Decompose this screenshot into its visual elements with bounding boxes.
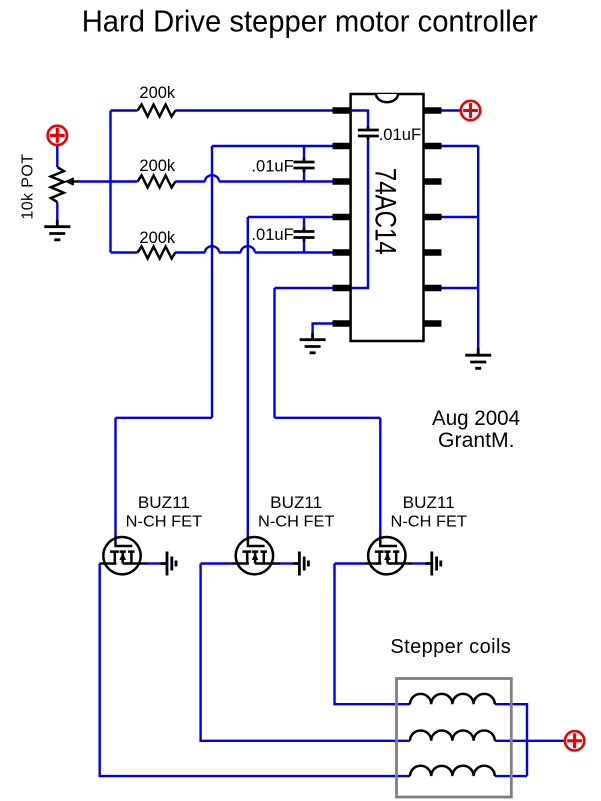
wire row3 left lead: [111, 251, 138, 253]
wire coil1 right lead: [495, 704, 527, 776]
IC U1 pin R4: [423, 214, 442, 221]
potentiometer wiper lead: [73, 180, 79, 182]
wire C1 bottom lead: [303, 171, 305, 182]
transistor Q1 BUZ11: [100, 536, 148, 575]
wire FET3 gate horizontal: [275, 417, 381, 419]
stepper coils box: [397, 679, 512, 798]
capacitor C2 .01uF: [294, 228, 315, 242]
wire C1 top lead: [303, 146, 305, 160]
wire FET3 gate vertical lower: [379, 418, 381, 536]
wire row1 R1 to pin L1: [175, 109, 368, 111]
wire row2 R2 to hop: [175, 180, 205, 182]
svg-text:N-CH FET: N-CH FET: [391, 514, 468, 531]
IC U1 pin R2: [423, 143, 442, 150]
wire pin L6 to corner: [275, 287, 333, 289]
wire pin L4 to corner: [248, 216, 333, 218]
wire pin L7 to ground: [313, 324, 333, 339]
svg-text:74AC14: 74AC14: [369, 168, 402, 255]
wire row1 left lead: [111, 109, 138, 111]
potentiometer wiper arrow: [64, 177, 74, 186]
ground pin L7: [300, 333, 326, 353]
IC U1 pin R1: [423, 107, 442, 114]
transistor Q2 BUZ11: [232, 536, 280, 575]
wire pin R2 to right bus: [442, 145, 479, 147]
resistor R2 200k: [138, 176, 176, 188]
IC U1 pin R6: [423, 285, 442, 292]
IC U1 pin L2: [333, 143, 352, 150]
wire FET2 drain to coil2: [201, 564, 410, 741]
hop row3 over FET1 gate net: [205, 246, 219, 252]
IC U1 pin R7: [423, 320, 442, 327]
wire FET3 drain left lead: [335, 562, 365, 564]
wire FET1 drain to coil3: [100, 564, 410, 777]
IC U1 74AC14 body: [351, 94, 424, 341]
hop row2 over FET1 gate net: [205, 175, 219, 181]
inductor coil1: [410, 694, 495, 704]
wire row2 hop to pin L3: [219, 180, 333, 182]
wire wiper to bus to R2 left: [78, 180, 138, 182]
transistor Q3 BUZ11: [364, 536, 412, 575]
inductor coil2: [410, 730, 495, 740]
inductor coil3: [410, 766, 495, 776]
svg-text:.01uF: .01uF: [379, 125, 421, 144]
wire FET2 drain left lead: [201, 562, 232, 564]
wire pin L2 to corner: [212, 145, 333, 147]
wire FET1 gate vertical lower: [114, 418, 116, 536]
wire pin R1 to +V: [442, 109, 461, 111]
wire row3 between hops: [219, 251, 241, 253]
wire FET3 drain to coil1: [335, 564, 411, 705]
svg-text:BUZ11: BUZ11: [138, 494, 190, 512]
wire row3 R3 to hop1: [175, 251, 205, 253]
svg-text:Stepper coils: Stepper coils: [390, 636, 511, 658]
supply +V IC pin R1: [461, 101, 480, 120]
svg-text:.01uF: .01uF: [251, 225, 293, 244]
svg-text:GrantM.: GrantM.: [438, 428, 515, 452]
svg-text:Aug 2004: Aug 2004: [432, 406, 520, 430]
ground Q2 source: [293, 552, 309, 576]
wire pin R4 to right bus: [442, 216, 479, 218]
svg-text:BUZ11: BUZ11: [403, 494, 455, 512]
wire pin R6 to right bus: [442, 287, 479, 289]
supply +V pot: [48, 126, 67, 145]
wire FET3 source gap: [412, 562, 425, 564]
IC U1 pin L7: [333, 320, 352, 327]
wire right bus vertical: [477, 146, 479, 354]
wire pot top lead: [56, 144, 58, 167]
wire row3 hop2 to pin L5: [255, 251, 333, 253]
IC U1 pin R3: [423, 178, 442, 185]
ground right bus: [465, 348, 491, 368]
wire FET1 source gap: [147, 562, 160, 564]
svg-text:200k: 200k: [139, 157, 176, 175]
wire FET3 gate vertical upper: [273, 288, 275, 418]
wire left bus vertical: [109, 111, 111, 253]
wire coil3 right lead: [495, 775, 527, 777]
IC U1 pin L6: [333, 285, 352, 292]
wire coil2 right to +V: [495, 740, 565, 742]
IC U1 pin L3: [333, 178, 352, 185]
capacitor C3 .01uF inside IC: [358, 127, 379, 140]
IC U1 pin R5: [423, 249, 442, 256]
wire pot bottom lead: [56, 202, 58, 226]
wire FET1 gate horizontal: [116, 417, 213, 419]
svg-text:N-CH FET: N-CH FET: [126, 514, 203, 531]
ground Q1 source: [161, 552, 177, 576]
potentiometer 10k zigzag: [51, 167, 64, 202]
ground Q3 source: [425, 552, 441, 576]
svg-text:.01uF: .01uF: [251, 157, 293, 176]
resistor R1 200k: [138, 105, 176, 117]
svg-text:10k POT: 10k POT: [20, 154, 37, 220]
wire FET2 source gap: [280, 562, 293, 564]
svg-text:BUZ11: BUZ11: [270, 494, 322, 512]
wire FET2 gate vertical: [247, 217, 249, 536]
svg-text:200k: 200k: [139, 229, 176, 247]
wire C3 bottom to pin L6: [333, 139, 369, 289]
wire pin L1 into IC to C3: [351, 111, 368, 128]
wire C2 top lead: [303, 217, 305, 229]
supply +V stepper coils: [565, 731, 584, 750]
ground pot: [44, 220, 70, 240]
hop row3 over FET2 gate net: [241, 246, 255, 252]
resistor R3 200k: [138, 247, 176, 259]
svg-text:Hard Drive stepper motor contr: Hard Drive stepper motor controller: [82, 6, 538, 39]
svg-text:N-CH FET: N-CH FET: [258, 514, 335, 531]
IC U1 pin L4: [333, 214, 352, 221]
wire FET1 gate vertical upper: [211, 146, 213, 418]
svg-text:200k: 200k: [139, 84, 176, 102]
capacitor C1 .01uF: [294, 158, 315, 172]
IC U1 pin L1: [333, 107, 352, 114]
IC U1 pin L5: [333, 249, 352, 256]
IC U1 notch: [376, 94, 398, 102]
wire C2 bottom lead: [303, 240, 305, 253]
